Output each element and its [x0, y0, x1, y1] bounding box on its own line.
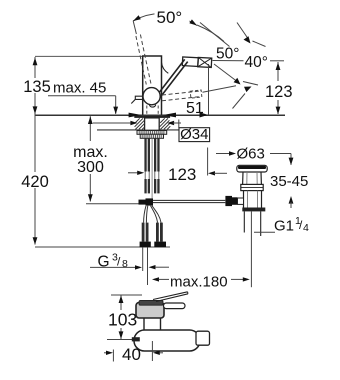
Ø34 dim arrows: [93, 122, 132, 124]
G1 1/4 leader: [254, 231, 275, 233]
base plate dark: [134, 116, 170, 118]
arrow down 135 deck: [33, 106, 38, 114]
35-45 dim upper: [290, 154, 292, 165]
horizontal ref line from spout tip: [213, 60, 244, 62]
hose tube below: [142, 247, 144, 271]
lever thin top: [153, 292, 188, 300]
faucet body rect: [143, 56, 162, 115]
drain side knob: [225, 196, 232, 206]
threaded studs lower: [144, 179, 146, 193]
max300 dim vertical lower: [89, 174, 91, 202]
side view 103 dim line: [120, 295, 122, 310]
drain pipe: [243, 211, 245, 232]
bottom reference line 420: [35, 246, 170, 248]
label 135: [21, 78, 52, 93]
lever grip rod: [164, 303, 186, 309]
svg-text:Ø63: Ø63: [237, 146, 265, 163]
dashed cap box: [190, 90, 202, 98]
side spout capsule: [134, 330, 200, 351]
left stub lever: [135, 96, 143, 99]
svg-text:Ø34: Ø34: [180, 126, 208, 143]
leader from dashed grip: [203, 86, 237, 93]
arc tail right: [197, 25, 224, 42]
svg-text:40°: 40°: [245, 54, 268, 71]
label 50 deg 1: [155, 7, 190, 24]
side body pedestal: [143, 318, 145, 330]
label 420: [20, 172, 51, 188]
hose curves upper: [144, 206, 146, 223]
drain body lower: [244, 191, 262, 208]
40 dim extension right: [151, 341, 153, 361]
deck arrows at faucet base: [129, 113, 142, 118]
nut body: [140, 134, 163, 138]
dim line 135/420 vertical: [34, 57, 36, 245]
dashed handle up: [136, 36, 146, 85]
drain collar: [241, 184, 263, 190]
fan line lower with arrow: [244, 87, 252, 93]
svg-text:G1: G1: [274, 218, 294, 235]
hose bars: [142, 223, 145, 242]
side view 103 top tick: [111, 294, 142, 296]
svg-text:G: G: [98, 254, 110, 271]
side view cartridge: [136, 303, 164, 319]
G38 right arrow: [149, 265, 156, 269]
stud break thin lines: [144, 172, 146, 180]
123 left arrow: [128, 172, 139, 174]
shank dashed verticals: [146, 106, 148, 116]
max300 dim vertical upper: [89, 116, 91, 141]
arm fillet: [162, 63, 169, 74]
deck slab bottom left: [97, 129, 145, 131]
svg-text:4: 4: [303, 222, 309, 234]
max300 arrow down: [88, 194, 93, 202]
max180 dim: [152, 277, 159, 281]
svg-text:max.180: max.180: [170, 274, 228, 291]
cartridge cap band: [139, 300, 163, 305]
123 right dim lower: [277, 100, 279, 114]
123 right dim upper: [277, 62, 279, 81]
hatch right: [160, 118, 168, 127]
drain neck: [243, 172, 262, 184]
threaded studs upper: [144, 138, 146, 171]
svg-text:max. 45: max. 45: [53, 80, 106, 97]
pop-up rod vertical: [151, 138, 153, 198]
max45 arrow down: [113, 107, 118, 115]
arc arrow right: [189, 19, 197, 25]
123 left right arrow: [208, 171, 215, 175]
drain flange: [237, 165, 267, 172]
nut washer: [137, 131, 167, 135]
hatch left: [135, 118, 143, 127]
shank square: [145, 118, 160, 130]
35-45 dim lower arrow up: [289, 196, 294, 204]
svg-text:420: 420: [21, 173, 49, 191]
dashed handle up thin top line: [133, 21, 136, 34]
drain bottom ring: [242, 208, 265, 212]
40 arrows: [104, 352, 107, 354]
arc arrow left: [133, 15, 141, 21]
joint circle: [143, 88, 160, 105]
svg-text:40: 40: [122, 345, 141, 364]
notch under circle: [149, 105, 155, 107]
51 extension line: [208, 64, 210, 115]
arrow down 420 bottom: [33, 237, 38, 245]
svg-text:50°: 50°: [157, 8, 183, 27]
max45 leader vertical: [115, 96, 117, 114]
angle arc 50 deg left: [133, 13, 197, 25]
svg-text:300: 300: [77, 159, 104, 176]
103 bottom tick: [107, 339, 136, 341]
G38 leader with arrow: [90, 266, 136, 268]
dashed handle right: [162, 91, 201, 95]
max45 leader horizontal: [48, 95, 116, 97]
svg-text:123: 123: [168, 165, 196, 184]
capsule notch left: [132, 337, 140, 341]
Ø34 box: [179, 128, 210, 142]
handle grip: [182, 57, 211, 68]
svg-text:135: 135: [23, 78, 51, 96]
max300 arrow up: [88, 116, 93, 124]
axis segment: [243, 82, 258, 86]
handle arm thick bar: [156, 59, 185, 96]
fan line upper with arrow: [214, 64, 239, 83]
Ø63 right line: [270, 153, 291, 155]
pop-up rod: [153, 199, 225, 201]
40 dim extension left: [112, 350, 114, 362]
svg-text:35-45: 35-45: [270, 173, 308, 190]
svg-text:50°: 50°: [216, 46, 239, 63]
deck slab bottom right: [159, 129, 179, 131]
51 arrow right: [200, 112, 209, 117]
svg-text:103: 103: [108, 310, 137, 330]
svg-text:8: 8: [122, 258, 128, 270]
Ø34 box vertical: [178, 120, 180, 128]
aerator right: [196, 331, 210, 345]
cross fitting: [139, 200, 146, 205]
max300 bottom ref line: [86, 203, 139, 205]
svg-text:123: 123: [265, 83, 293, 101]
hose caps: [140, 242, 151, 248]
123 extension line: [207, 148, 209, 176]
radial line 2: [200, 23, 230, 47]
Ø63 left arrow: [216, 153, 230, 155]
svg-text:/: /: [117, 255, 121, 269]
arrow up 135 top: [33, 58, 38, 66]
deck line: [35, 114, 285, 116]
second angle line with arrow: [237, 23, 249, 41]
body top reference line: [35, 55, 143, 57]
